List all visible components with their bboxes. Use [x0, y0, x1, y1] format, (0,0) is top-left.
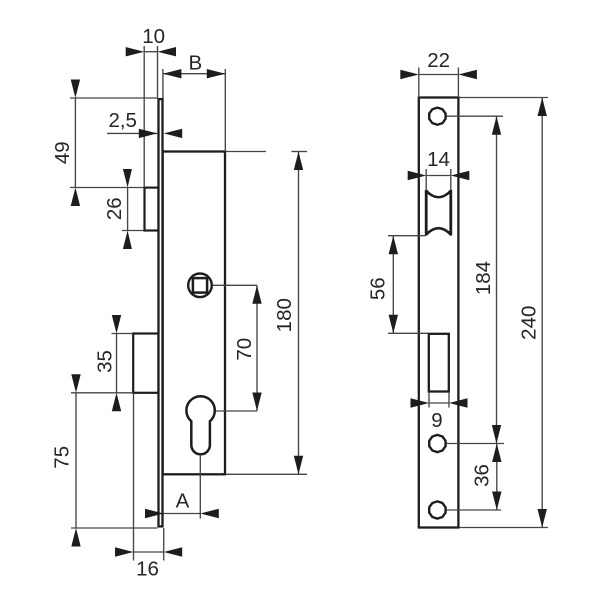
svg-text:56: 56 [367, 277, 390, 300]
svg-text:9: 9 [431, 409, 442, 432]
svg-text:2,5: 2,5 [108, 109, 137, 132]
svg-text:180: 180 [273, 298, 296, 332]
svg-text:22: 22 [427, 49, 450, 72]
svg-text:B: B [188, 52, 202, 75]
svg-text:26: 26 [103, 197, 126, 220]
svg-text:49: 49 [51, 141, 74, 164]
svg-text:75: 75 [51, 446, 74, 469]
svg-text:10: 10 [142, 25, 165, 48]
svg-text:184: 184 [472, 261, 495, 295]
svg-text:36: 36 [471, 464, 494, 487]
svg-text:14: 14 [427, 148, 450, 171]
svg-text:240: 240 [518, 306, 541, 340]
svg-text:A: A [176, 490, 190, 513]
svg-text:70: 70 [233, 338, 256, 361]
svg-text:35: 35 [93, 350, 116, 373]
svg-text:16: 16 [136, 557, 159, 580]
